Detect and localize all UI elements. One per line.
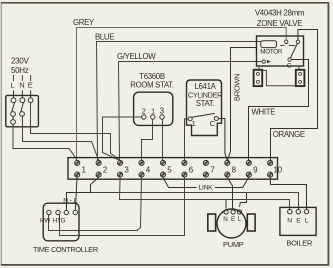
pump left flange <box>208 214 216 231</box>
terminal 2 screws and number <box>96 160 108 177</box>
zone valve body left flange <box>254 70 263 86</box>
svg-text:ORANGE: ORANGE <box>273 130 305 139</box>
cylinder stat switch blade <box>192 113 215 117</box>
svg-text:V4043H 28mm: V4043H 28mm <box>255 9 305 18</box>
svg-text:MOTOR: MOTOR <box>260 49 283 56</box>
svg-text:WHITE: WHITE <box>252 108 276 117</box>
room stat terminal 2 <box>142 115 146 119</box>
mains isolator E pole <box>28 91 33 103</box>
svg-text:3: 3 <box>160 107 165 116</box>
cylinder stat L641A box <box>187 80 222 136</box>
wire orange: valve switch to terminal 10 <box>271 30 318 161</box>
svg-text:4: 4 <box>146 165 151 174</box>
svg-text:G/YELLOW: G/YELLOW <box>117 52 156 61</box>
svg-text:L: L <box>305 217 309 224</box>
svg-text:TIME CONTROLLER: TIME CONTROLLER <box>33 245 98 254</box>
zone valve aux contact <box>262 60 265 63</box>
svg-text:BOILER: BOILER <box>286 238 313 247</box>
svg-text:STAT.: STAT. <box>196 99 215 108</box>
wire mains E to terminal 3 <box>31 103 119 160</box>
zone valve aux arrow <box>267 60 271 63</box>
room stat T6360B box <box>134 92 173 125</box>
zone valve switch common contact C <box>288 58 291 61</box>
mains terminal labels L N E <box>11 81 33 90</box>
zone valve box <box>257 36 304 66</box>
wire room stat 1 to terminal 4 <box>142 119 153 160</box>
svg-text:7: 7 <box>210 165 215 174</box>
wire terminal 8 to pump E <box>227 177 232 209</box>
svg-text:2: 2 <box>103 165 108 174</box>
mains isolator switch box <box>6 95 39 126</box>
room stat label T6360B ROOM STAT. <box>130 72 174 90</box>
svg-text:C: C <box>287 62 292 69</box>
wire terminal 10 to boiler L <box>270 177 306 209</box>
zone valve body outline <box>259 67 299 86</box>
zone valve switch contact 2 (orange) <box>296 40 299 43</box>
svg-text:ROOM STAT.: ROOM STAT. <box>130 81 174 90</box>
room stat terminal 1 <box>151 115 155 119</box>
terminal 3 screws and number <box>118 160 130 177</box>
zone valve switch contact 1 (grey) <box>285 40 288 43</box>
svg-text:E: E <box>296 217 301 224</box>
wire green/yellow: valve aux to terminal 3 <box>119 62 262 161</box>
terminal 7 screws and number <box>203 160 215 177</box>
zone valve motor-switch dashed link <box>280 45 284 47</box>
svg-text:PUMP: PUMP <box>223 240 244 249</box>
wire brown: valve motor to terminal 8 <box>228 48 257 161</box>
wire terminal 6 to time controller HTG <box>60 177 185 235</box>
pump body circle <box>217 209 246 238</box>
svg-text:GREY: GREY <box>73 18 95 27</box>
svg-text:HTG: HTG <box>53 218 66 225</box>
wire blue: valve motor to terminal 2 <box>97 42 262 161</box>
earth bus wire terminal 3 to boiler N <box>120 177 290 209</box>
svg-text:HW: HW <box>40 218 51 225</box>
wire time controller N to terminal 2 and neutral bus <box>67 177 99 210</box>
svg-text:10: 10 <box>274 165 283 174</box>
boiler terminal N <box>288 210 292 214</box>
svg-text:BLUE: BLUE <box>95 33 114 42</box>
cylinder stat label L641A CYLINDER STAT. <box>188 82 222 108</box>
pump right flange <box>247 214 255 231</box>
svg-text:50Hz: 50Hz <box>11 66 29 75</box>
link wire terminal 5 to terminal 9 <box>163 177 249 187</box>
svg-text:N: N <box>287 217 292 224</box>
svg-text:-: - <box>70 197 72 204</box>
terminal 6 screws and number <box>182 160 194 177</box>
svg-text:N: N <box>63 198 68 205</box>
zone valve switch blade <box>290 44 297 58</box>
neutral bus wire to boiler E <box>91 193 299 210</box>
terminal 5 screws and number <box>160 160 172 177</box>
terminal 4 screws and number <box>139 160 151 177</box>
svg-text:E: E <box>28 81 33 90</box>
svg-text:C: C <box>210 119 216 128</box>
pump terminal N <box>224 210 228 214</box>
svg-text:E: E <box>231 216 235 223</box>
svg-text:8: 8 <box>232 165 237 174</box>
pump terminal L <box>237 210 241 214</box>
wire mains L to terminal 1 <box>13 124 77 160</box>
earth bus tap to pump N <box>225 200 227 209</box>
pump terminal E <box>231 210 235 214</box>
wire terminal 4 to time controller HW <box>49 177 142 230</box>
svg-text:2: 2 <box>142 107 146 116</box>
zone valve motor coil <box>261 41 277 48</box>
wire terminal 1 to time controller L <box>75 177 77 210</box>
wire white: valve switch C to terminal 9 <box>249 60 309 161</box>
boiler terminal E <box>296 210 300 214</box>
svg-text:1: 1 <box>192 119 196 128</box>
svg-text:230V: 230V <box>11 57 29 66</box>
time controller terminal N <box>64 210 68 214</box>
wire room stat 2 to terminal 3 <box>103 117 142 160</box>
wire cylinder stat 1 to terminal 6 <box>185 119 189 160</box>
mains supply incoming wire stubs <box>14 75 31 81</box>
zone valve label V4043H 28mm ZONE VALVE <box>255 9 305 29</box>
wire room stat 3 to terminal 5 <box>162 119 164 160</box>
time controller terminal L <box>73 210 77 214</box>
svg-text:3: 3 <box>124 165 129 174</box>
mains supply label 230V 50Hz <box>11 57 29 76</box>
mains isolator L pole <box>11 91 16 125</box>
time controller terminal HW <box>47 210 51 214</box>
wire mains N to terminal 2 <box>23 115 99 160</box>
neutral bus tap to pump L <box>240 193 247 207</box>
svg-text:1: 1 <box>151 107 155 116</box>
svg-text:5: 5 <box>167 165 172 174</box>
room stat terminal labels 2 1 3 <box>142 107 165 116</box>
time controller box <box>43 203 79 241</box>
boiler box <box>280 207 316 235</box>
svg-text:6: 6 <box>189 165 194 174</box>
svg-text:9: 9 <box>253 165 258 174</box>
terminal 8 screws and number <box>225 160 237 177</box>
wire cylinder stat C to terminal 8 <box>218 119 227 161</box>
wire grey: valve switch to terminal 1 <box>77 28 287 161</box>
room stat terminal 3 <box>160 115 164 119</box>
terminal 10 screws and number <box>268 160 283 177</box>
svg-text:BROWN: BROWN <box>233 74 242 101</box>
cylinder stat terminal C <box>214 117 218 121</box>
terminal strip box <box>68 158 278 180</box>
time controller terminal HTG <box>56 210 60 214</box>
svg-text:ZONE VALVE: ZONE VALVE <box>257 19 302 28</box>
terminal 1 screws and number <box>75 160 87 177</box>
svg-text:1: 1 <box>82 165 87 174</box>
svg-text:LINK: LINK <box>199 184 214 191</box>
svg-text:N: N <box>19 81 24 90</box>
zone valve body right flange <box>296 70 305 86</box>
svg-text:L: L <box>11 81 15 90</box>
terminal 9 screws and number <box>246 160 258 177</box>
cylinder stat terminal 1 <box>188 117 192 121</box>
mains isolator N pole <box>20 91 25 117</box>
svg-text:N: N <box>223 216 228 223</box>
boiler terminal L <box>304 210 308 214</box>
